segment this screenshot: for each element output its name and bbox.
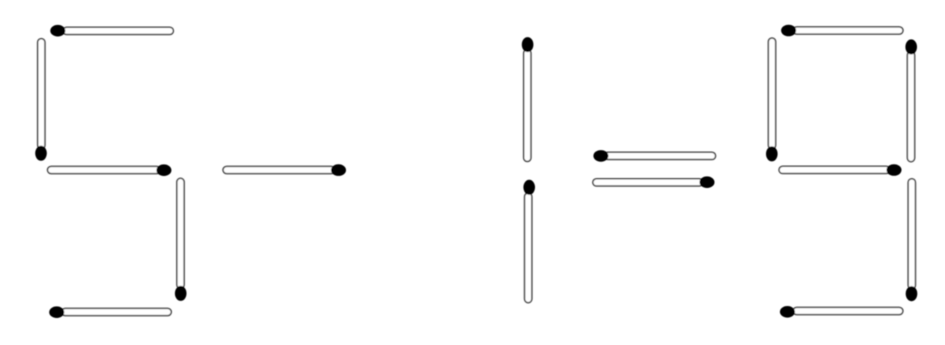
- matchstick: digit 9, bottom horizontal (head left): [780, 306, 903, 318]
- matchstick: digit 5, middle horizontal (head right): [48, 164, 172, 176]
- matchstick: digit 9, upper-right vertical (head top): [905, 39, 917, 161]
- matchstick: digit 9, top horizontal (head left): [781, 25, 903, 37]
- matchstick: digit 1, lower vertical (head top): [523, 180, 535, 303]
- matchstick: equals sign, lower horizontal (head right): [593, 176, 715, 188]
- matchstick: digit 5, lower-right vertical (head bottom): [175, 178, 187, 301]
- matchstick: digit 9, middle horizontal (head right): [779, 164, 902, 176]
- matchstick: minus sign horizontal (head right): [223, 164, 346, 176]
- matchstick: digit 9, upper-left vertical (head bottom): [766, 38, 778, 161]
- matchstick: digit 1, upper vertical (head top): [522, 37, 534, 161]
- matchstick: digit 5, upper-left vertical (head bottom): [35, 39, 47, 161]
- matchstick: digit 5, bottom horizontal (head left): [49, 306, 171, 318]
- matchstick: digit 5, top horizontal (head left): [50, 25, 173, 37]
- matchstick: equals sign, upper horizontal (head left): [593, 150, 715, 162]
- matchstick: digit 9, lower-right vertical (head bottom): [906, 179, 918, 302]
